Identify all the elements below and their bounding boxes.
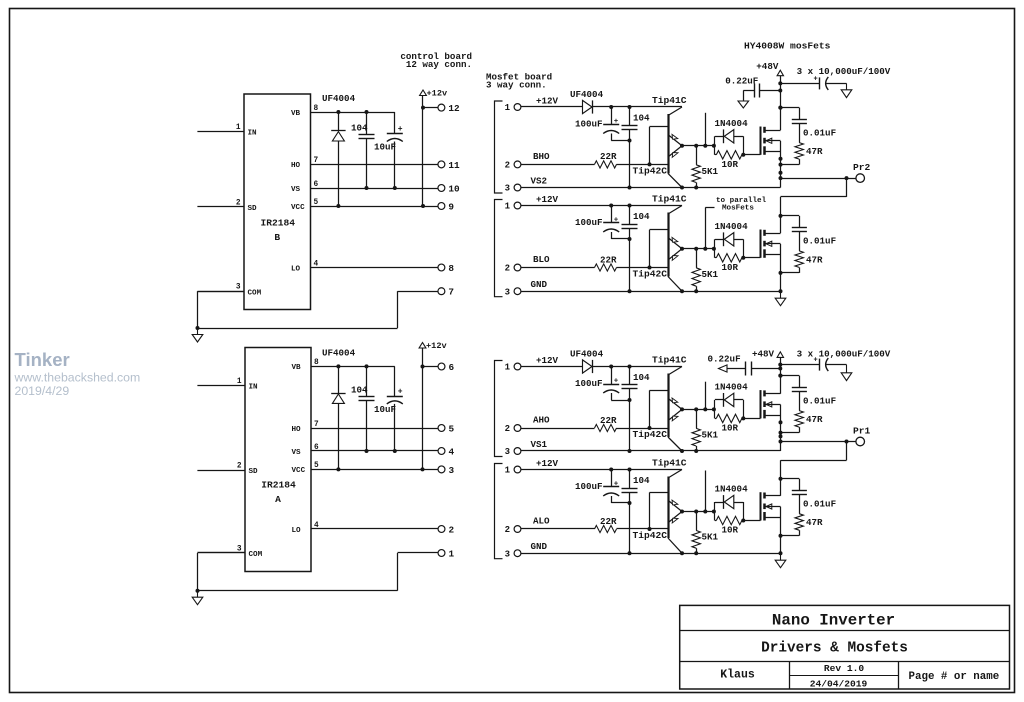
svg-text:2: 2	[237, 463, 242, 471]
svg-text:VB: VB	[291, 110, 301, 118]
capacitor 100uF (stage 1)	[575, 107, 632, 143]
UA pin 4 LO (right)	[292, 522, 320, 535]
terminal 3 (stage 3 mosfet board)	[505, 447, 521, 457]
wire GND rail (stage 4)	[521, 551, 783, 555]
svg-text:+12V: +12V	[536, 458, 559, 469]
snubber 0.01uF + 47R (stage 1)	[779, 106, 837, 167]
diode 1N4004 (stage 2)	[715, 221, 749, 258]
svg-text:5: 5	[314, 199, 319, 207]
terminal 3 (control board)	[438, 465, 454, 476]
terminal 10 (control board)	[438, 183, 460, 194]
svg-text:7: 7	[448, 287, 454, 298]
svg-text:BLO: BLO	[533, 254, 550, 265]
svg-text:100uF: 100uF	[575, 119, 603, 130]
node gate-drive (stage 1)	[680, 144, 716, 148]
svg-text:0.01uF: 0.01uF	[803, 127, 836, 138]
svg-text:Tip42C: Tip42C	[633, 269, 668, 280]
svg-text:VS1: VS1	[531, 439, 548, 450]
svg-text:5K1: 5K1	[702, 269, 719, 280]
svg-text:10R: 10R	[722, 262, 739, 273]
UA pin 7 HO (right)	[292, 421, 320, 434]
mosfet Q2 HY4008W (stage 2)	[743, 230, 780, 258]
svg-text:+48V: +48V	[752, 349, 775, 360]
svg-text:1: 1	[505, 103, 511, 113]
diode UF4004 (stage 3)	[570, 349, 604, 374]
svg-text:9: 9	[448, 201, 454, 212]
capacitor 104 (stage 1)	[622, 107, 651, 190]
svg-text:IN: IN	[249, 384, 259, 392]
mosfet Q1 HY4008W (stage 1)	[743, 127, 780, 155]
svg-text:100uF: 100uF	[575, 481, 603, 492]
bootstrap diode UF4004 (UA)	[322, 347, 356, 471]
bootstrap diode UF4004 (UB)	[322, 93, 356, 208]
capacitor 0.22uF (half-bridge 2)	[708, 353, 781, 375]
diode UF4004 (stage 1)	[570, 89, 604, 114]
wire UA COM routing	[196, 553, 438, 593]
svg-text:HO: HO	[292, 426, 302, 434]
svg-text:Page # or name: Page # or name	[909, 671, 1000, 683]
transistor Q pair base bar (stage 4)	[650, 477, 669, 539]
ground low-side (half-bridge 1)	[780, 291, 782, 298]
wire UA VCC to terminal	[311, 467, 438, 471]
svg-text:22R: 22R	[600, 151, 617, 162]
svg-text:104: 104	[633, 372, 650, 383]
ground (UA COM)	[197, 591, 199, 598]
svg-text:5K1: 5K1	[702, 429, 719, 440]
svg-text:5K1: 5K1	[702, 532, 719, 543]
svg-text:LO: LO	[291, 265, 301, 273]
terminal 2 (control board)	[438, 524, 454, 535]
terminal 3 (stage 2 mosfet board)	[505, 287, 521, 297]
svg-text:0.01uF: 0.01uF	[803, 498, 836, 509]
ground 10,000uF (half-bridge 2)	[846, 365, 848, 373]
UA pin 1 IN (left)	[197, 378, 258, 392]
svg-text:IR2184: IR2184	[260, 218, 295, 229]
svg-text:VCC: VCC	[292, 467, 306, 475]
terminal 11 (control board)	[438, 160, 460, 171]
snubber 0.01uF + 47R (stage 3)	[779, 374, 837, 435]
svg-text:10R: 10R	[722, 422, 739, 433]
svg-text:1: 1	[505, 363, 511, 373]
UB pin 8 VB (right)	[291, 105, 319, 118]
diode 1N4004 (stage 1)	[715, 118, 749, 155]
wire phase to low-side drain (half-bridge 2)	[781, 442, 847, 496]
svg-text:2: 2	[236, 200, 241, 208]
wire +12v rail (UB)	[421, 96, 425, 207]
wire UA VB net	[311, 366, 395, 368]
wire +48V rail (half-bridge 1)	[778, 76, 782, 130]
capacitor 104 (UB bootstrap)	[351, 110, 375, 190]
terminal 4 (control board)	[438, 446, 454, 457]
terminal Pr1	[781, 426, 871, 446]
ground 10,000uF (half-bridge 1)	[846, 83, 848, 89]
svg-text:22R: 22R	[600, 254, 617, 265]
capacitor 10uF (UB bootstrap)	[374, 112, 403, 190]
wire +12v to terminal 12	[423, 107, 438, 109]
svg-text:11: 11	[448, 160, 460, 171]
UB label IR2184 B	[260, 218, 295, 244]
resistor 22R (stage 2)	[521, 254, 668, 271]
wire stub to parallel MosFets (stage 1)	[705, 113, 707, 146]
wire phase to low-side drain (half-bridge 1)	[781, 178, 847, 233]
svg-text:6: 6	[314, 181, 319, 189]
svg-text:4: 4	[449, 446, 455, 457]
svg-text:1: 1	[505, 466, 511, 476]
svg-text:6: 6	[449, 362, 455, 373]
svg-text:UF4004: UF4004	[322, 93, 356, 104]
svg-text:+48V: +48V	[756, 61, 779, 72]
snubber 0.01uF + 47R (stage 4)	[779, 477, 837, 538]
svg-text:47R: 47R	[806, 517, 823, 528]
terminal 2 (stage 1 mosfet board)	[505, 161, 521, 171]
UA label IR2184 A	[261, 480, 296, 506]
terminal 1 (stage 4 mosfet board)	[505, 466, 521, 476]
svg-text:+12V: +12V	[536, 96, 559, 107]
UA pin 5 VCC (right)	[292, 462, 320, 475]
+12v supply arrow (UA)	[419, 341, 447, 351]
svg-text:COM: COM	[248, 289, 262, 297]
+48V supply arrow (half-bridge 2)	[752, 349, 784, 360]
3-way connector bracket (stage 1)	[495, 101, 503, 193]
resistor 10R (stage 3)	[715, 400, 745, 434]
svg-text:www.thebackshed.com: www.thebackshed.com	[14, 371, 141, 385]
label control board 12 way conn.	[400, 51, 472, 70]
wire stub to parallel MosFets (stage 3)	[705, 382, 707, 410]
svg-text:A: A	[275, 494, 281, 505]
IC UA IR2184 A body	[245, 348, 311, 572]
svg-text:Tip41C: Tip41C	[652, 458, 687, 469]
terminal 2 (stage 3 mosfet board)	[505, 424, 521, 434]
+48V supply arrow (half-bridge 1)	[756, 61, 783, 76]
wire UA LO to terminal	[311, 528, 438, 530]
wire +12V rail (stage 2)	[521, 204, 682, 208]
label to parallel MosFets (stage 2)	[716, 197, 767, 213]
wire stub to parallel MosFets (stage 4)	[705, 471, 707, 512]
svg-text:+12V: +12V	[536, 194, 559, 205]
UB pin 5 VCC (right)	[291, 199, 319, 212]
terminal 3 (stage 1 mosfet board)	[505, 184, 521, 194]
ground low-side (half-bridge 2)	[780, 553, 782, 560]
svg-text:+12V: +12V	[536, 355, 559, 366]
svg-text:3: 3	[505, 549, 510, 559]
resistor 22R (stage 4)	[521, 516, 668, 533]
transistor Tip41C NPN (stage 3)	[652, 355, 687, 410]
terminal 1 (stage 3 mosfet board)	[505, 363, 521, 373]
svg-text:2019/4/29: 2019/4/29	[15, 384, 70, 398]
svg-text:24/04/2019: 24/04/2019	[810, 679, 868, 690]
transistor Q pair base bar (stage 3)	[650, 374, 669, 438]
transistor Q pair base bar (stage 2)	[650, 213, 669, 277]
svg-text:104: 104	[351, 122, 368, 133]
capacitor 104 (stage 2)	[622, 206, 651, 294]
svg-text:8: 8	[448, 263, 454, 274]
IC UB IR2184 B body	[244, 94, 311, 310]
svg-text:0.22uF: 0.22uF	[725, 75, 758, 86]
svg-text:+: +	[398, 387, 403, 396]
wire VS1 rail (stage 3)	[521, 449, 781, 453]
svg-text:HY4008W mosFets: HY4008W mosFets	[744, 41, 831, 52]
terminal 12 (control board)	[438, 103, 460, 114]
svg-text:22R: 22R	[600, 516, 617, 527]
svg-text:7: 7	[314, 421, 319, 429]
svg-text:100uF: 100uF	[575, 217, 603, 228]
svg-text:Tip41C: Tip41C	[652, 95, 687, 106]
svg-text:5K1: 5K1	[702, 166, 719, 177]
transistor Tip42C PNP (stage 3)	[633, 409, 683, 451]
UA pin 8 VB (right)	[292, 359, 320, 372]
svg-text:1N4004: 1N4004	[715, 484, 749, 495]
svg-text:GND: GND	[531, 541, 548, 552]
svg-text:1: 1	[236, 124, 241, 132]
snubber 0.01uF + 47R (stage 2)	[779, 214, 837, 275]
capacitor 3 x 10,000uF/100V (half-bridge 1)	[780, 66, 891, 90]
svg-text:104: 104	[351, 385, 368, 396]
svg-text:100uF: 100uF	[575, 378, 603, 389]
svg-text:12: 12	[448, 103, 460, 114]
svg-text:UF4004: UF4004	[570, 89, 604, 100]
wire stub to parallel MosFets (stage 2)	[705, 208, 714, 249]
svg-text:+: +	[614, 217, 619, 225]
svg-text:1: 1	[237, 378, 242, 386]
wire UA VS to terminal	[311, 450, 438, 452]
svg-text:MosFets: MosFets	[722, 205, 754, 213]
svg-text:47R: 47R	[806, 254, 823, 265]
resistor 5K1 (stage 1)	[692, 146, 719, 188]
transistor Q pair base bar (stage 1)	[650, 114, 669, 173]
svg-text:Tip41C: Tip41C	[652, 355, 687, 366]
wire UB VB net	[311, 112, 395, 114]
transistor Tip41C NPN (stage 2)	[652, 194, 687, 249]
resistor 22R (stage 3)	[521, 415, 668, 432]
svg-text:LO: LO	[292, 527, 302, 535]
resistor 22R (stage 1)	[521, 151, 668, 168]
UB pin 1 IN (left)	[197, 124, 257, 138]
resistor 5K1 (stage 4)	[692, 512, 719, 554]
svg-text:5: 5	[449, 423, 455, 434]
svg-text:0.22uF: 0.22uF	[708, 353, 741, 364]
svg-text:3: 3	[236, 284, 241, 292]
ground 0.22uF (half-bridge 1)	[738, 91, 755, 109]
3-way connector bracket (stage 3)	[495, 361, 503, 457]
UA pin 3 COM (left)	[197, 546, 262, 560]
UB pin 7 HO (right)	[291, 157, 319, 170]
terminal 5 (control board)	[438, 423, 454, 434]
node phase/source (half-bridge 2)	[779, 405, 783, 451]
diode 1N4004 (stage 3)	[715, 381, 749, 418]
svg-text:2: 2	[505, 264, 510, 274]
UA pin 6 VS (right)	[292, 444, 320, 457]
capacitor 104 (stage 3)	[622, 367, 651, 454]
svg-text:SD: SD	[248, 205, 258, 213]
svg-text:12 way conn.: 12 way conn.	[406, 59, 472, 70]
resistor 10R (stage 4)	[715, 502, 745, 536]
title block	[680, 605, 1010, 689]
svg-text:47R: 47R	[806, 414, 823, 425]
svg-text:Tip42C: Tip42C	[633, 530, 668, 541]
svg-text:AHO: AHO	[533, 415, 550, 426]
svg-text:Tip42C: Tip42C	[633, 429, 668, 440]
svg-text:47R: 47R	[806, 146, 823, 157]
svg-text:+12v: +12v	[426, 341, 447, 351]
svg-text:Tip41C: Tip41C	[652, 194, 687, 205]
resistor 5K1 (stage 3)	[692, 409, 719, 451]
svg-text:IR2184: IR2184	[261, 480, 296, 491]
svg-text:0.01uF: 0.01uF	[803, 236, 836, 247]
wire +12v rail (UA)	[421, 348, 425, 469]
svg-text:Klaus: Klaus	[720, 669, 755, 682]
ground (UB COM)	[197, 328, 199, 335]
svg-text:10R: 10R	[722, 525, 739, 536]
svg-text:104: 104	[633, 475, 650, 486]
wire +12V rail (stage 1)	[521, 105, 682, 109]
wire +48V rail (half-bridge 2)	[778, 357, 782, 393]
svg-text:3: 3	[505, 287, 510, 297]
wire UB LO to terminal	[311, 267, 438, 269]
svg-text:2: 2	[449, 524, 455, 535]
wire GND rail (stage 2)	[521, 289, 783, 293]
wire +12V rail (stage 4)	[521, 468, 682, 472]
terminal 1 (control board)	[438, 548, 454, 559]
3-way connector bracket (stage 4)	[495, 464, 503, 559]
svg-text:0.01uF: 0.01uF	[803, 395, 836, 406]
svg-text:VCC: VCC	[291, 204, 305, 212]
terminal 2 (stage 2 mosfet board)	[505, 264, 521, 274]
svg-text:1N4004: 1N4004	[715, 221, 749, 232]
capacitor 100uF (stage 4)	[575, 470, 632, 506]
wire UB COM routing	[196, 291, 438, 330]
svg-text:COM: COM	[249, 551, 263, 559]
svg-text:Nano Inverter: Nano Inverter	[772, 612, 895, 630]
capacitor 3 x 10,000uF/100V (half-bridge 2)	[780, 349, 891, 372]
wire UA HO to terminal	[311, 428, 438, 430]
svg-text:3: 3	[449, 465, 455, 476]
resistor 5K1 (stage 2)	[692, 249, 719, 291]
svg-text:UF4004: UF4004	[322, 347, 356, 358]
svg-text:VS: VS	[291, 186, 301, 194]
transistor Tip41C NPN (stage 1)	[652, 95, 687, 146]
UB pin 4 LO (right)	[291, 260, 319, 273]
terminal 2 (stage 4 mosfet board)	[505, 525, 521, 535]
svg-text:10: 10	[448, 183, 460, 194]
svg-text:8: 8	[314, 105, 319, 113]
svg-text:Pr2: Pr2	[853, 162, 871, 173]
capacitor 10uF (UA bootstrap)	[374, 366, 403, 453]
capacitor 104 (stage 4)	[622, 470, 651, 556]
terminal 3 (stage 4 mosfet board)	[505, 549, 521, 559]
wire +12V rail (stage 3)	[521, 365, 682, 369]
wire UB VS to terminal	[311, 188, 438, 190]
svg-text:UF4004: UF4004	[570, 349, 604, 360]
svg-text:1: 1	[505, 202, 511, 212]
UB pin 6 VS (right)	[291, 181, 319, 194]
mosfet Q4 HY4008W (stage 4)	[743, 492, 780, 520]
svg-text:Pr1: Pr1	[853, 426, 871, 437]
svg-text:Rev 1.0: Rev 1.0	[824, 663, 865, 674]
node gate-drive (stage 2)	[680, 247, 716, 251]
svg-text:Tip42C: Tip42C	[633, 165, 668, 176]
svg-text:10uF: 10uF	[374, 404, 396, 415]
transistor Tip42C PNP (stage 1)	[633, 146, 683, 188]
capacitor 100uF (stage 2)	[575, 206, 632, 242]
svg-text:1: 1	[449, 548, 455, 559]
svg-text:Tinker: Tinker	[15, 349, 70, 370]
svg-text:104: 104	[633, 211, 650, 222]
diode 1N4004 (stage 4)	[715, 484, 749, 521]
svg-text:VS2: VS2	[531, 176, 548, 187]
svg-text:2: 2	[505, 161, 510, 171]
terminal 8 (control board)	[438, 263, 454, 274]
svg-text:22R: 22R	[600, 415, 617, 426]
label Mosfet board 3 way conn.	[486, 72, 552, 91]
terminal 7 (control board)	[438, 287, 454, 298]
terminal 6 (control board)	[438, 362, 454, 373]
UB pin 2 SD (left)	[197, 200, 257, 214]
svg-text:10R: 10R	[722, 159, 739, 170]
capacitor 104 (UA bootstrap)	[351, 364, 375, 453]
svg-text:1N4004: 1N4004	[715, 118, 749, 129]
UB pin 3 COM (left)	[197, 284, 261, 298]
terminal 1 (stage 2 mosfet board)	[505, 202, 521, 212]
resistor 10R (stage 2)	[715, 239, 745, 272]
node low-side source (half-bridge 1)	[780, 244, 782, 291]
svg-text:+12v: +12v	[427, 89, 448, 99]
svg-text:Drivers & Mosfets: Drivers & Mosfets	[761, 641, 908, 657]
transistor Tip42C PNP (stage 4)	[633, 512, 683, 554]
svg-text:B: B	[274, 232, 280, 243]
svg-text:VB: VB	[292, 364, 302, 372]
svg-text:104: 104	[633, 113, 650, 124]
node gate-drive (stage 4)	[680, 510, 716, 514]
svg-text:3 x 10,000uF/100V: 3 x 10,000uF/100V	[797, 349, 891, 360]
svg-text:+: +	[398, 125, 403, 134]
svg-text:2: 2	[505, 424, 510, 434]
svg-text:VS: VS	[292, 449, 302, 457]
3-way connector bracket (stage 2)	[495, 200, 503, 297]
wire UB VCC to terminal	[311, 204, 438, 208]
capacitor 100uF (stage 3)	[575, 367, 632, 403]
svg-text:BHO: BHO	[533, 151, 550, 162]
mosfet Q3 HY4008W (stage 3)	[743, 390, 780, 418]
svg-text:10uF: 10uF	[374, 142, 396, 153]
capacitor 0.22uF (half-bridge 1)	[725, 75, 780, 97]
wire +12v to terminal 6	[423, 366, 438, 368]
node gate-drive (stage 3)	[680, 407, 716, 411]
node phase/source (half-bridge 1)	[779, 141, 783, 188]
ground 0.22uF (half-bridge 2, rotated)	[719, 365, 746, 372]
svg-text:3 way conn.: 3 way conn.	[486, 79, 547, 90]
watermark Tinker logo	[14, 349, 141, 398]
wire VS2 rail (stage 1)	[521, 186, 781, 190]
svg-text:3 x 10,000uF/100V: 3 x 10,000uF/100V	[797, 66, 891, 77]
svg-text:HO: HO	[291, 162, 301, 170]
svg-text:+: +	[814, 357, 818, 365]
svg-text:GND: GND	[531, 279, 548, 290]
terminal 9 (control board)	[438, 201, 454, 212]
wire UB HO to terminal	[311, 164, 438, 166]
svg-text:ALO: ALO	[533, 516, 550, 527]
svg-text:+: +	[814, 75, 818, 83]
transistor Tip42C PNP (stage 2)	[633, 249, 683, 291]
svg-text:3: 3	[505, 447, 510, 457]
+12v supply arrow (UB)	[420, 89, 448, 99]
svg-text:3: 3	[505, 184, 510, 194]
transistor Tip41C NPN (stage 4)	[652, 458, 687, 512]
svg-text:+: +	[614, 481, 619, 489]
terminal Pr2	[781, 162, 871, 182]
svg-text:1N4004: 1N4004	[715, 381, 749, 392]
node low-side source (half-bridge 2)	[780, 507, 782, 554]
svg-text:IN: IN	[248, 130, 258, 138]
